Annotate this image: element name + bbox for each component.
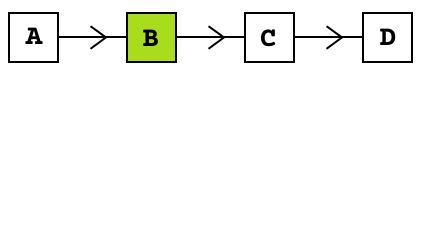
label B [143,30,158,46]
label A [25,28,42,44]
arrowhead A to B [91,26,107,49]
node B (highlighted) [127,13,176,62]
arrowhead C to D [327,26,343,49]
label C [261,29,275,46]
arrowhead B to C [209,26,225,49]
wire C to D [295,36,363,38]
wire B to C [177,36,245,38]
node C [245,13,294,62]
node D [363,13,412,62]
node A [9,13,58,62]
wire A to B [59,36,127,38]
label D [380,29,395,45]
